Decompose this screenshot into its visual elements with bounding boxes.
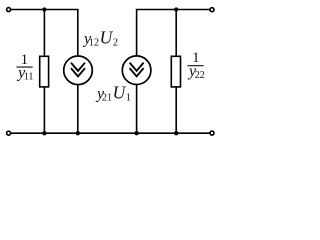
label fraction 1/y11 bar (17, 66, 33, 68)
junction dot bottom rail at R2 (174, 131, 178, 135)
terminal port2 top (210, 8, 214, 12)
current source y21U1 double chevron (130, 63, 144, 77)
terminal port1 top (7, 8, 11, 12)
junction dot top-right node (174, 7, 178, 11)
wire: top-right rail from port2 terminal to corner, then down through CS2 branch (137, 10, 212, 134)
junction dot bottom rail at R1 (42, 131, 46, 135)
resistor 1/y11 body (40, 56, 49, 87)
wire: right vertical branch through resistor R2 (x=176.2) (175, 10, 177, 134)
resistor 1/y22 body (171, 56, 180, 87)
current source y12U2 double chevron (71, 63, 85, 77)
current source y21U1 circle (122, 56, 151, 85)
current source y12U2 circle (64, 56, 93, 85)
wire: top-left rail from port1 terminal to corner, then down through CS1 branch (9, 10, 78, 134)
junction dot bottom rail at CS2 (134, 131, 138, 135)
wire: bottom common rail (9, 132, 212, 134)
junction dot bottom rail at CS1 (76, 131, 80, 135)
junction dot top-left node (42, 7, 46, 11)
terminal port1 bottom (7, 131, 11, 135)
terminal port2 bottom (210, 131, 214, 135)
label fraction 1/y22 bar (187, 65, 203, 67)
wire: left vertical branch through resistor R1 (x=44.4) (43, 10, 45, 134)
